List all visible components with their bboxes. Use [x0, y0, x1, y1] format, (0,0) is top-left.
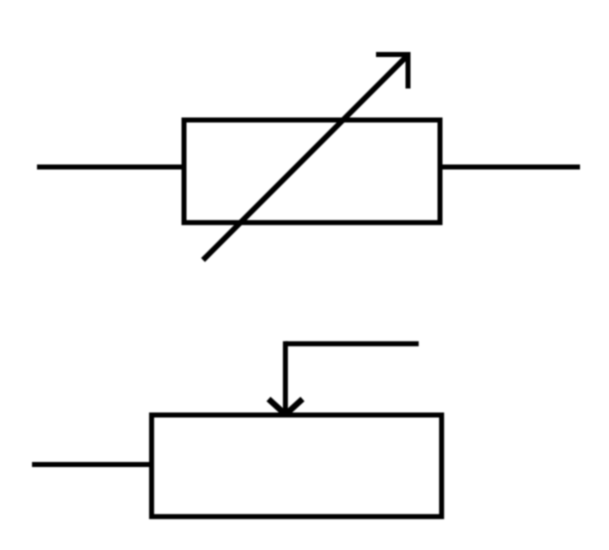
resistor R1 body (variable resistor, IEC rectangle)	[184, 120, 440, 223]
wire: left lead of potentiometer R2	[32, 462, 152, 467]
wiper arrowhead left stroke	[269, 399, 286, 415]
variable-resistor adjustment arrow shaft (diagonal through R1)	[203, 56, 407, 260]
wiper wire: horizontal segment of potentiometer tap	[285, 341, 418, 346]
wiper arrowhead right stroke	[286, 399, 303, 415]
potentiometer R2 body (IEC rectangle)	[152, 415, 442, 517]
variable-resistor arrowhead (horizontal bar)	[376, 52, 411, 57]
variable-resistor arrowhead (vertical bar)	[406, 53, 411, 89]
wire: right lead of variable resistor R1	[440, 165, 580, 170]
wire: left lead of variable resistor R1	[37, 165, 184, 170]
wiper wire: vertical segment of potentiometer tap	[283, 341, 288, 411]
